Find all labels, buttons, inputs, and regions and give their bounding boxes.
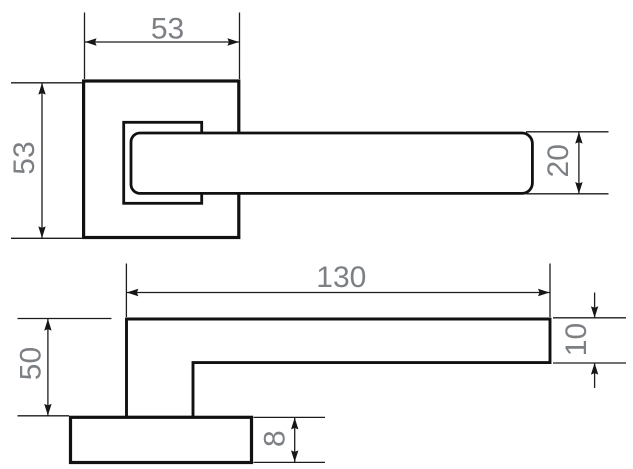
svg-text:50: 50 — [15, 347, 48, 380]
svg-text:20: 20 — [542, 144, 575, 177]
svg-text:53: 53 — [8, 141, 41, 174]
svg-text:10: 10 — [560, 323, 593, 356]
svg-text:8: 8 — [259, 430, 292, 447]
svg-text:53: 53 — [151, 12, 184, 45]
svg-text:130: 130 — [316, 261, 366, 294]
